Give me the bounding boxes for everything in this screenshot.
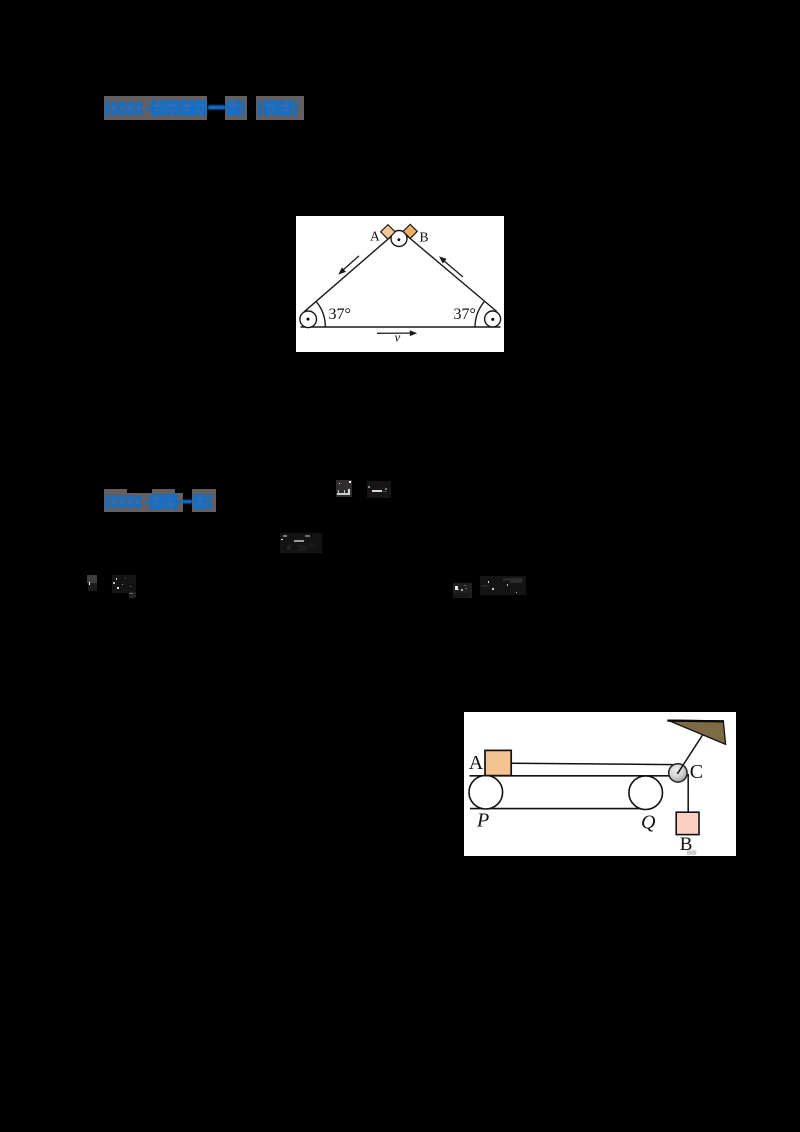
diagram 2 : horizontal conveyor with pulley C bbox=[464, 712, 736, 856]
right belt arrow bbox=[444, 261, 463, 277]
heading 1 highlight box B bbox=[225, 96, 247, 120]
heading 2 highlight box B bbox=[152, 489, 175, 512]
axle dot of pulley C bbox=[677, 772, 679, 774]
left belt arrow bbox=[343, 256, 359, 271]
svg-text:37°: 37° bbox=[329, 306, 351, 323]
svg-text:B: B bbox=[420, 230, 429, 245]
svg-text:P: P bbox=[476, 810, 489, 832]
faint math F6 bbox=[453, 583, 473, 598]
heading 1 blue text blobs bbox=[100, 94, 315, 124]
heading 1 highlight box A bbox=[104, 96, 207, 120]
diagram 1 : triangular conveyor belt bbox=[296, 216, 504, 352]
belt bottom line bbox=[470, 808, 648, 810]
smudge under label B bbox=[687, 850, 697, 855]
white panel bbox=[464, 712, 736, 856]
heading 2 blue text blobs bbox=[100, 488, 220, 516]
left incline belt line bbox=[304, 233, 395, 312]
block A bbox=[485, 750, 511, 775]
heading 2 highlight box A bbox=[104, 489, 127, 512]
bottom belt line bbox=[301, 326, 501, 328]
right 37 degree arc bbox=[475, 301, 485, 327]
svg-text:A: A bbox=[370, 229, 380, 244]
faint math F3 bbox=[280, 533, 323, 553]
heading 1 highlight box C bbox=[256, 96, 304, 120]
block B bbox=[676, 812, 699, 834]
block B diamond bbox=[403, 224, 417, 238]
heading 2 highlight partial BC bbox=[175, 493, 183, 512]
pulley Q bbox=[629, 776, 663, 810]
white panel bbox=[296, 216, 504, 352]
right incline belt line bbox=[403, 233, 496, 312]
left 37 degree arc bbox=[316, 302, 325, 327]
string C to B bbox=[687, 774, 689, 813]
bottom v arrow bbox=[377, 332, 411, 334]
pulley C bbox=[669, 764, 687, 782]
faint math F2 bbox=[367, 481, 391, 498]
faint math F7 bbox=[480, 576, 526, 595]
faint math F5 bbox=[112, 575, 137, 593]
string A to C bbox=[511, 763, 673, 764]
bottom-left pulley bbox=[300, 311, 317, 328]
faint math F4 bbox=[87, 575, 96, 583]
faint math F1 bbox=[336, 480, 353, 497]
belt top line bbox=[470, 775, 676, 777]
svg-text:v: v bbox=[395, 330, 401, 345]
block A diamond bbox=[381, 225, 395, 239]
svg-text:C: C bbox=[690, 761, 703, 783]
top pulley bbox=[391, 231, 407, 247]
pulley P bbox=[469, 775, 503, 809]
svg-text:A: A bbox=[469, 752, 484, 774]
string wedge to C bbox=[678, 735, 703, 773]
svg-text:37°: 37° bbox=[454, 306, 476, 323]
wedge support bbox=[668, 720, 726, 744]
heading 2 highlight partial AB bbox=[127, 493, 152, 512]
bottom-right pulley bbox=[485, 311, 501, 327]
heading 2 highlight box C bbox=[192, 489, 215, 512]
svg-text:Q: Q bbox=[641, 812, 656, 834]
